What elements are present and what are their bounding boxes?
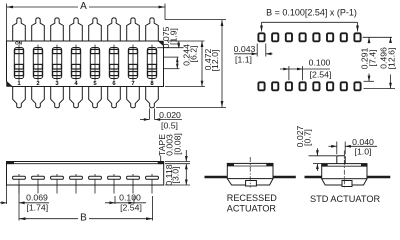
svg-text:[0.7]: [0.7] bbox=[303, 129, 313, 146]
recessed actuator: tape line bbox=[227, 165, 273, 167]
dimension 0.043 [1.1] line with arrows bbox=[234, 53, 257, 55]
svg-text:0.100: 0.100 bbox=[309, 58, 331, 68]
side view: tape end mark left (filled) bbox=[7, 162, 15, 165]
top view: pin-1 chamfer mark (filled corner) bbox=[7, 82, 13, 87]
dimension 0.040 [1.0] extension lines bbox=[336, 142, 338, 155]
dimension 0.020 [0.5] line with arrows bbox=[140, 119, 149, 121]
svg-text:B: B bbox=[80, 212, 87, 223]
std actuator: right lead bbox=[367, 176, 390, 179]
std actuator: left lead bbox=[305, 176, 322, 179]
svg-text:[2.54]: [2.54] bbox=[310, 70, 332, 80]
dimension 0.040 [1.0] line with arrows bbox=[329, 145, 337, 147]
dimension 0.020 [0.5] extension lines bbox=[148, 109, 150, 120]
extension line at actuator top (travel upper ref) bbox=[164, 56, 179, 58]
std actuator: tape line bbox=[322, 165, 367, 167]
top view: 8 slide-switch slots with actuators bbox=[14, 48, 23, 79]
top view: chamfer fill top-right corner bbox=[159, 41, 164, 46]
dimension 0.291 [7.4] line bbox=[368, 37, 370, 43]
land pattern: extension line at upper pad centre bbox=[363, 36, 393, 38]
extension line at slot top (0.075 bottom ref) bbox=[157, 47, 183, 49]
svg-text:0.069: 0.069 bbox=[26, 193, 48, 203]
svg-text:0.043: 0.043 bbox=[234, 44, 256, 54]
dimension 0.075 [1.9] line bbox=[178, 41, 180, 48]
dimension B line with down arrows bbox=[262, 21, 358, 23]
std actuator: lower skirt bbox=[322, 179, 367, 185]
svg-text:[1.0]: [1.0] bbox=[355, 147, 372, 157]
extension line at pin-bottom level (overall height bottom ref) bbox=[156, 107, 226, 109]
extension line at body top (0.075 top ref) bbox=[167, 40, 205, 42]
recessed actuator: tape end marks bbox=[227, 163, 234, 166]
std actuator: bottom centre tab bbox=[342, 181, 352, 187]
side view: extension lines for tape/body height bbox=[165, 161, 190, 163]
std actuator: centreline bbox=[343, 151, 345, 190]
side view: tape seal line bbox=[7, 163, 164, 165]
top view: 8 lower terminals (pins 1..8) bbox=[13, 87, 26, 108]
dimension 0.100 [2.54] line with arrows bbox=[280, 68, 330, 70]
actuator travel arrows bbox=[176, 57, 178, 69]
extension line at pin-top level (overall height top ref) bbox=[165, 19, 226, 21]
recessed actuator: lower skirt bbox=[227, 179, 273, 185]
dimension A line with arrows bbox=[7, 6, 79, 8]
side view: body outline bbox=[7, 162, 164, 186]
dimension 0.496 [12.6] line bbox=[390, 37, 392, 42]
dimension 0.100 [2.54] extension lines (pad pitch) bbox=[288, 66, 290, 80]
side view: 8 gull-wing feet with centrelines bbox=[18, 174, 20, 194]
svg-text:[6.2]: [6.2] bbox=[189, 46, 199, 63]
svg-text:[0.08]: [0.08] bbox=[173, 133, 183, 155]
dimension 0.069 [1.74] line with arrows bbox=[0, 202, 7, 204]
svg-text:[1.9]: [1.9] bbox=[169, 28, 179, 45]
svg-text:[12.6]: [12.6] bbox=[387, 48, 397, 70]
std actuator: protruding actuator knob bbox=[337, 156, 345, 164]
dimension A extension lines bbox=[6, 4, 8, 42]
dimension 0.100 [2.54] (foot pitch) line with arrows bbox=[105, 202, 146, 204]
dimension 0.118 [3.0] line with arrows bbox=[185, 164, 187, 185]
dimension 0.472 [12.0] line bbox=[221, 20, 223, 108]
recessed actuator: centreline bbox=[249, 157, 251, 188]
svg-text:0.100: 0.100 bbox=[119, 193, 141, 203]
dimension 0.100 [2.54] (foot pitch) extension lines bbox=[114, 196, 116, 204]
svg-text:0.020: 0.020 bbox=[159, 110, 181, 120]
side view: TAPE leader line bbox=[160, 156, 162, 162]
recessed actuator: bottom centre tab bbox=[246, 181, 257, 187]
svg-text:STD ACTUATOR: STD ACTUATOR bbox=[310, 194, 380, 204]
recessed actuator: main body box bbox=[227, 163, 273, 178]
svg-text:[7.4]: [7.4] bbox=[368, 50, 378, 67]
recessed actuator: right lead bbox=[273, 176, 296, 179]
svg-text:ACTUATOR: ACTUATOR bbox=[227, 203, 277, 213]
extension line at actuator bottom (travel lower ref) bbox=[164, 68, 180, 70]
dimension 0.003 [0.08] tape thickness arrows bbox=[185, 150, 187, 162]
svg-text:RECESSED: RECESSED bbox=[227, 193, 277, 203]
dimension B extension line right (foot 8 centre) bbox=[152, 196, 154, 221]
svg-text:[0.5]: [0.5] bbox=[161, 121, 178, 131]
top view: 8 upper terminals (pins 16..9) bbox=[13, 18, 26, 41]
svg-text:[3.0]: [3.0] bbox=[171, 167, 181, 184]
extension line at body bottom (0.244 lower ref) bbox=[165, 86, 205, 88]
dimension 0.027 [0.7] line with arrows bbox=[316, 148, 318, 156]
land pattern: lower pad row (8 pads) bbox=[258, 82, 264, 90]
dimension 0.069 [1.74] extension lines bbox=[6, 185, 8, 204]
svg-text:[1.74]: [1.74] bbox=[26, 203, 48, 213]
svg-text:ON: ON bbox=[15, 41, 23, 46]
land pattern: extension line at lower pad bottom bbox=[364, 88, 396, 90]
std actuator: main body box bbox=[322, 164, 367, 179]
land pattern: extension line at lower pad top bbox=[364, 80, 375, 82]
svg-text:[12.0]: [12.0] bbox=[210, 50, 220, 72]
dimension 0.244 [6.2] line bbox=[201, 41, 203, 87]
dimension 0.027 [0.7] extension lines bbox=[309, 155, 337, 157]
std actuator: tape end marks bbox=[322, 164, 328, 167]
land pattern: upper pad row (8 pads) bbox=[258, 33, 264, 41]
svg-text:B = 0.100[2.54] x (P-1): B = 0.100[2.54] x (P-1) bbox=[266, 8, 357, 18]
dimension B line with arrows bbox=[19, 218, 78, 220]
svg-text:[2.54]: [2.54] bbox=[120, 203, 142, 213]
side view: tape end mark right (filled) bbox=[158, 162, 164, 165]
svg-text:[1.1]: [1.1] bbox=[235, 55, 252, 65]
svg-text:A: A bbox=[80, 1, 87, 12]
top view: switch body outline bbox=[7, 41, 164, 87]
dimension 0.043 [1.1] extension lines bbox=[256, 44, 258, 57]
recessed actuator: left lead bbox=[205, 176, 228, 179]
